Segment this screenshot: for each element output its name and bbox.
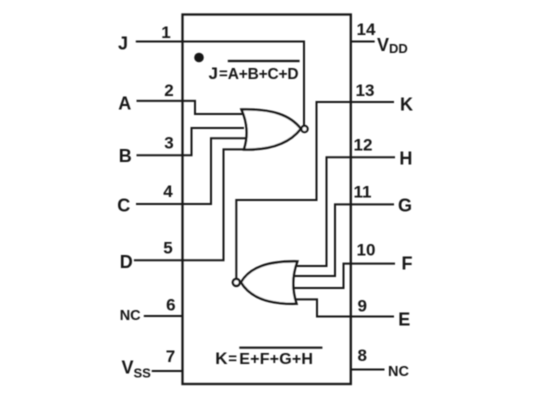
- equation K overline: [239, 347, 322, 349]
- wire net A: pin 2 stub and route to U1a input 1: [137, 101, 245, 114]
- svg-text:6: 6: [166, 296, 175, 315]
- NOR gate U1a output bubble: [301, 126, 307, 132]
- svg-text:F: F: [402, 254, 413, 274]
- svg-text:13: 13: [356, 81, 375, 100]
- IC package outline U1: [183, 15, 351, 385]
- svg-text:E: E: [398, 310, 410, 330]
- svg-text:2: 2: [164, 81, 173, 100]
- wire net C: pin 4 stub and route to U1a input 3: [136, 138, 246, 204]
- wire pin 14 VDD stub: [351, 41, 375, 43]
- svg-text:A: A: [118, 94, 131, 114]
- wire net F: pin 10 stub and route to U1b input 3: [294, 264, 395, 288]
- svg-text:B: B: [119, 146, 132, 166]
- wire pin 6 NC stub: [144, 315, 183, 317]
- svg-text:K: K: [215, 349, 228, 368]
- svg-text:NC: NC: [388, 364, 409, 380]
- svg-text:K: K: [400, 95, 413, 115]
- svg-text:E+F+G+H: E+F+G+H: [239, 351, 313, 368]
- wire net E: pin 9 stub and route to U1b input 4: [295, 299, 394, 316]
- wire pin 8 NC stub: [351, 369, 385, 371]
- svg-text:8: 8: [358, 346, 367, 365]
- svg-text:A+B+C+D: A+B+C+D: [228, 66, 299, 83]
- svg-text:NC: NC: [120, 308, 141, 324]
- wire net D: pin 5 stub and route to U1a input 4: [134, 149, 245, 260]
- svg-text:D: D: [120, 252, 133, 272]
- svg-text:4: 4: [163, 182, 173, 201]
- wire net B: pin 3 stub and route to U1a input 2: [137, 128, 245, 155]
- svg-text:G: G: [398, 196, 412, 216]
- svg-text:=: =: [228, 351, 237, 368]
- svg-text:14: 14: [357, 20, 376, 39]
- svg-text:H: H: [399, 149, 412, 169]
- svg-text:J: J: [118, 33, 128, 53]
- svg-text:J: J: [209, 64, 218, 83]
- equation J overline: [228, 60, 300, 62]
- svg-text:C: C: [117, 196, 130, 216]
- NOR gate U1b body: [241, 261, 297, 303]
- wire net J: pin 1 stub and route to U1a output bubble: [136, 42, 304, 126]
- NOR gate U1b output bubble: [233, 279, 240, 286]
- wire net K: pin 13 stub and route to U1b output bubble: [236, 102, 394, 278]
- svg-text:12: 12: [354, 136, 373, 155]
- wire net H: pin 12 stub and route to U1b input 1: [294, 157, 395, 266]
- wire net G: pin 11 stub and route to U1b input 2: [294, 204, 395, 276]
- svg-text:7: 7: [166, 347, 175, 366]
- svg-text:9: 9: [358, 297, 367, 316]
- svg-text:3: 3: [164, 134, 173, 153]
- svg-text:10: 10: [357, 241, 376, 260]
- wire pin 7 VSS stub: [152, 370, 183, 372]
- NOR gate U1a body: [242, 109, 301, 149]
- pin 1 indicator dot: [194, 53, 204, 63]
- svg-text:5: 5: [163, 239, 172, 258]
- svg-text:=: =: [219, 66, 228, 83]
- svg-text:11: 11: [354, 183, 372, 202]
- svg-text:1: 1: [161, 23, 170, 42]
